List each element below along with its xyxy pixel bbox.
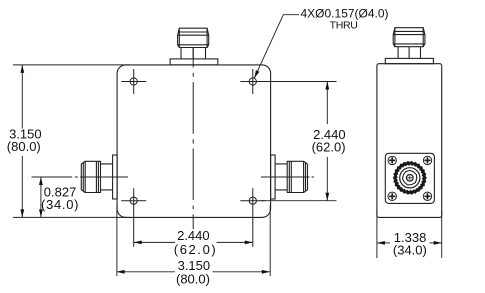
hole top-left [121, 69, 146, 94]
face connector center pin [407, 175, 414, 182]
dim 1.338: dimension line [377, 242, 390, 244]
left connector body [101, 164, 113, 190]
top connector center pin line [192, 48, 194, 59]
top connector coupling nut [178, 28, 209, 47]
right connector body [275, 164, 287, 190]
left connector flange [113, 155, 118, 199]
top connector N jack (flange) [170, 59, 218, 65]
main body box [117, 65, 271, 218]
dim 3.150 bottom: dimension line [117, 271, 175, 273]
face connector middle circle [400, 168, 420, 188]
hole top-right [240, 69, 265, 94]
faceplate square flange [385, 153, 434, 203]
dim 2.440 right: extension lines [261, 81, 337, 83]
side body box [377, 64, 442, 218]
side top connector coupling nut [393, 28, 425, 47]
knurled coupling ring of face connector [393, 161, 427, 195]
dim 0.827: dimension line [40, 177, 42, 217]
vertical centerline [192, 48, 194, 230]
top connector neck [181, 48, 206, 59]
right connector flange [271, 155, 276, 199]
side top connector pin line [408, 47, 410, 59]
svg-text:2.440: 2.440 [177, 228, 210, 243]
svg-text:4XØ0.157(Ø4.0): 4XØ0.157(Ø4.0) [301, 6, 389, 20]
dim 3.150 left: dimension line [21, 65, 23, 129]
dim 3.150 bottom: extension lines [116, 205, 118, 276]
svg-text:(62.0): (62.0) [312, 139, 346, 154]
side top connector flange [385, 58, 433, 63]
screw top-right [423, 156, 431, 164]
hole bottom-right [240, 188, 265, 247]
right connector centerline [261, 176, 314, 178]
svg-text:THRU: THRU [330, 19, 358, 31]
screw bottom-left [388, 192, 396, 200]
dim 2.440 bottom: dimension line [134, 241, 175, 243]
svg-text:(80.0): (80.0) [7, 139, 41, 154]
hole bottom-left [121, 188, 146, 247]
screw top-left [388, 156, 396, 164]
side top connector neck [398, 47, 420, 59]
svg-text:(62.0): (62.0) [174, 242, 218, 257]
left connector centerline [32, 176, 129, 178]
right connector coupling nut [287, 161, 307, 192]
dim 3.150 left: extension lines [13, 64, 130, 66]
svg-text:(34.0): (34.0) [41, 197, 79, 212]
face connector hex insert [403, 170, 417, 185]
leader to hole [254, 15, 299, 78]
dim 1.338: extension lines [376, 210, 378, 258]
svg-text:(80.0): (80.0) [176, 271, 210, 286]
screw bottom-right [423, 192, 431, 200]
left connector coupling nut [81, 161, 100, 192]
dim 2.440 right: dimension line [326, 82, 328, 125]
svg-text:(34.0): (34.0) [393, 243, 427, 258]
